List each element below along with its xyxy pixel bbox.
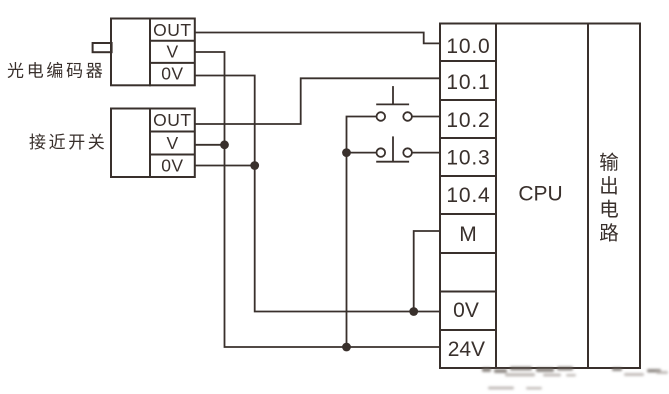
svg-text:OUT: OUT (153, 110, 191, 130)
svg-text:10.1: 10.1 (446, 71, 490, 94)
svg-text:路: 路 (599, 223, 619, 245)
svg-text:M: M (459, 223, 477, 246)
svg-text:CPU: CPU (518, 182, 562, 205)
svg-text:出: 出 (599, 176, 619, 198)
svg-text:24V: 24V (448, 338, 485, 361)
svg-text:OUT: OUT (153, 20, 191, 40)
svg-text:10.2: 10.2 (446, 109, 490, 132)
svg-text:V: V (167, 133, 179, 153)
svg-text:10.3: 10.3 (446, 147, 490, 170)
svg-text:电: 电 (599, 199, 619, 221)
svg-text:0V: 0V (453, 299, 479, 322)
svg-text:10.0: 10.0 (446, 35, 490, 58)
svg-text:输: 输 (599, 152, 619, 174)
svg-text:0V: 0V (161, 63, 183, 83)
svg-text:10.4: 10.4 (446, 184, 490, 207)
svg-text:接近开关: 接近开关 (29, 133, 107, 152)
svg-text:V: V (167, 41, 179, 61)
svg-text:光电编码器: 光电编码器 (7, 61, 106, 80)
svg-text:0V: 0V (161, 156, 183, 176)
